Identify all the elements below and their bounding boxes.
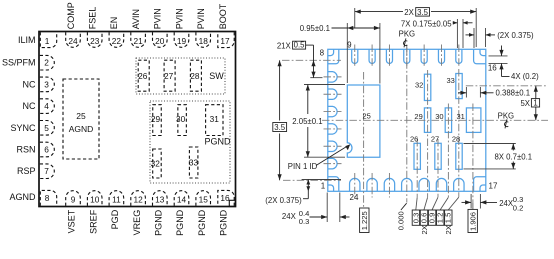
pin 1 corner pad (bottom-left L) [328,177,339,192]
centerline top slot [406,45,408,68]
pad 32 [424,74,430,100]
pin 5 SYNC (left) [40,121,55,136]
svg-text:ILIM: ILIM [18,35,36,45]
pin 10 pad (top slot) [369,49,375,63]
pad 26 SW [138,60,149,91]
svg-text:33: 33 [189,158,199,168]
basic dimension box 1.225 (pad 25 column) [360,208,369,233]
dimension 5X 1 (row offset) [535,86,537,121]
dimension 24X 0.3/0.2 (bottom-right) [470,194,472,209]
centerline corner pad 1 row [283,179,341,181]
pin 11 pad (top slot) [386,49,392,63]
svg-text:(2X 0.375): (2X 0.375) [265,196,302,205]
svg-text:2X: 2X [404,8,414,17]
svg-text:31: 31 [210,114,220,124]
pin 20 pad (bottom arch) [419,178,429,191]
svg-text:8: 8 [320,49,325,58]
pin 14 PGND (bottom) [174,191,189,206]
pin 13 pad (top slot) [421,49,427,63]
svg-text:5: 5 [44,123,49,133]
svg-text:1.906: 1.906 [469,212,478,231]
pad 33 PGND [189,147,198,178]
dimension 24X 0.4/0.3 (corner pad width) [326,193,328,223]
centerline PKG column (0.000) [406,48,408,203]
svg-text:PVIN: PVIN [174,8,184,29]
centerline bottom arch [388,173,390,198]
svg-text:28: 28 [452,134,460,143]
basic dimension box 0.6 column [424,197,428,210]
centerline left D pad [324,93,342,95]
svg-text:PKG: PKG [399,30,415,39]
svg-text:PVIN: PVIN [153,8,163,29]
centerline left D pad [324,111,342,113]
pin 19 pad (bottom arch) [436,178,446,191]
svg-text:PGND: PGND [219,209,229,236]
svg-text:32: 32 [151,159,161,169]
pin 19 PVIN (top) [174,32,189,47]
svg-text:25: 25 [363,111,371,120]
svg-text:0.000: 0.000 [397,211,406,230]
pin 4 NC (left) [40,99,55,114]
PGND region box [150,101,230,183]
pin 16 corner pad (top-right L) [474,49,486,64]
pad 31 PGND [206,105,223,136]
pin 1 index corner marker [229,200,235,206]
centerline bottom arch [371,173,373,198]
svg-text:SYNC: SYNC [10,123,36,133]
centerline top slot [423,45,425,68]
pin 6 pad (left D) [328,89,337,99]
dimension 2X 3.5 (left vertical) [279,60,281,120]
pad 31 [466,108,481,132]
svg-text:24X: 24X [282,212,297,221]
pin 4 pad (left D) [328,124,337,134]
pin 1 ILIM (corner) [40,32,56,47]
pin 9 pad (top slot) [352,49,358,63]
svg-text:RSP: RSP [17,166,36,176]
svg-text:2.05±0.1: 2.05±0.1 [292,117,322,126]
svg-text:(2X 0.375): (2X 0.375) [497,31,534,40]
pad 32 PGND [153,149,162,178]
pin 24 COMP (top) [66,32,81,47]
centerline left D pad [324,163,342,165]
pin 18 pad (bottom arch) [454,178,464,191]
pin 11 PGD (bottom) [109,191,124,206]
svg-text:24: 24 [68,36,78,46]
pin 23 FSEL (top) [87,32,102,47]
svg-text:4X (0.2): 4X (0.2) [511,72,539,81]
svg-text:1: 1 [45,36,50,46]
centerline 1.5 column [458,69,460,197]
svg-text:SS/PFM: SS/PFM [2,58,36,68]
svg-text:7X 0.175±0.05: 7X 0.175±0.05 [401,19,452,28]
svg-text:31: 31 [456,112,464,121]
pin 17 BOOT (corner) [218,32,234,47]
centerline 0.3 column [416,139,418,197]
pin 15 PGND (bottom) [196,191,211,206]
basic dimension box 1.5 column [448,197,459,210]
svg-text:0.3: 0.3 [299,217,310,226]
svg-text:NC: NC [23,101,36,111]
svg-text:RSN: RSN [16,145,35,155]
pad 30 PGND [178,105,187,136]
pad 33 [456,74,462,99]
svg-text:PGND: PGND [204,137,231,147]
svg-text:3.5: 3.5 [417,8,429,17]
pin 10 SREF (bottom) [87,191,102,206]
svg-text:14: 14 [177,194,187,204]
pin 16 PGND (corner) [218,190,234,205]
centerline top slot [354,45,356,68]
svg-text:20: 20 [155,36,165,46]
svg-text:8: 8 [45,193,50,203]
svg-text:SW: SW [209,71,224,81]
pin 2 SS/PFM (left) [40,55,54,70]
centerline bottom arch [354,173,356,198]
pin 17 corner pad (bottom-right L) [474,177,486,192]
svg-text:3: 3 [44,79,49,89]
pin 20 PVIN (top) [153,32,168,47]
svg-text:26: 26 [410,134,418,143]
svg-text:26: 26 [138,71,148,81]
svg-text:30: 30 [435,112,443,121]
pin 18 PVIN (top) [196,32,211,47]
svg-text:BOOT: BOOT [218,3,228,29]
centerline top slot [388,45,390,68]
basic dimension box 0.3 column [416,197,417,210]
svg-text:23: 23 [90,36,100,46]
dimension 0.388±0.1 (pad 31 width) [465,87,467,98]
svg-text:12: 12 [133,194,143,204]
package outline (top view) [39,32,236,207]
centerline 1.2 column [447,104,449,198]
pad 26 [414,143,420,169]
svg-text:19: 19 [177,36,187,46]
pin 22 pad (bottom arch) [384,178,394,191]
svg-text:32: 32 [415,80,423,89]
pad 28 SW [190,60,201,91]
pad 27 [435,143,441,169]
basic dimension box 1.906 (pad 31 column) [472,203,474,209]
svg-text:17: 17 [489,182,498,191]
svg-text:FSEL: FSEL [88,7,98,30]
package body outline (land pattern) [328,49,486,191]
pin 24 pad (bottom arch) [350,178,360,191]
svg-text:1: 1 [533,99,537,108]
svg-text:5X: 5X [520,99,530,108]
svg-text:0.2: 0.2 [513,203,524,212]
centerline corner pad 8 row [282,59,341,61]
svg-text:15: 15 [199,194,209,204]
svg-text:AGND: AGND [69,124,94,134]
centerline left D pad [324,128,342,130]
svg-text:NC: NC [23,79,36,89]
pin 14 pad (top slot) [438,49,444,63]
pad 28 [456,143,462,169]
svg-text:AGND: AGND [9,192,36,202]
svg-text:1.5: 1.5 [444,213,453,224]
basic dimension box 1.2 column [440,197,448,210]
dimension 2.05±0.1 (pad 25 height) [304,84,345,86]
SW region box [136,58,225,94]
pin 3 NC (left) [40,77,55,92]
svg-text:VSET: VSET [67,209,77,233]
pin 8 AGND (corner) [40,190,56,205]
centerline top slot [371,45,373,68]
svg-text:3.5: 3.5 [274,123,286,132]
centerline pads 32/33 row [466,85,546,87]
svg-text:PGND: PGND [175,209,185,236]
svg-text:6: 6 [44,145,49,155]
svg-text:PGND: PGND [197,209,207,236]
svg-text:EN: EN [109,17,119,30]
pin 15 pad (top slot) [456,49,462,63]
pin 22 EN (top) [109,32,124,47]
pin 5 pad (left D) [328,106,337,116]
dimension 2X 3.5 (top) [354,8,356,28]
svg-text:SREF: SREF [88,209,98,234]
svg-text:7: 7 [44,166,49,176]
pin 6 RSN (left) [40,142,55,157]
svg-text:2: 2 [44,58,49,68]
svg-text:21: 21 [133,36,143,46]
svg-text:0.388±0.1: 0.388±0.1 [496,89,531,98]
centerline left D pad [324,145,342,147]
pin 7 pad (left D) [328,72,337,82]
pin 12 VREG (bottom) [131,191,146,206]
dimension 8X 0.7±0.1 (inner pad height) [464,143,516,145]
pad 25 AGND (thermal pad) [63,79,99,159]
svg-text:17: 17 [220,36,230,46]
pad 30 [445,108,451,132]
centerline 1.906 column [472,104,474,204]
dimension 4X (0.2) corner pad leg [489,55,508,57]
svg-text:PGND: PGND [154,209,164,236]
dimension (2X 0.375) bottom-left corner pad [302,179,341,181]
svg-text:10: 10 [90,194,100,204]
svg-text:18: 18 [199,36,209,46]
pad 29 [424,108,430,132]
pad 29 PGND [153,105,162,136]
centerline PKG row [322,119,548,121]
svg-text:27: 27 [431,134,439,143]
extension tick at first left pad row [310,77,322,79]
svg-text:PVIN: PVIN [196,8,206,29]
svg-text:30: 30 [176,114,186,124]
svg-text:27: 27 [164,71,174,81]
svg-text:0.95±0.1: 0.95±0.1 [300,24,330,33]
svg-text:29: 29 [414,112,422,121]
centerline 0.6 column [427,70,429,197]
dimension 0.95±0.1 (pad 25 width) [346,23,348,83]
svg-text:16: 16 [220,193,230,203]
svg-text:1.225: 1.225 [360,211,369,230]
svg-text:29: 29 [151,114,161,124]
svg-text:VREG: VREG [132,210,142,236]
centerline top slot [441,45,443,68]
centerline 0.9 column [437,139,439,197]
pin 13 PGND (bottom) [153,191,168,206]
svg-text:PIN 1 ID: PIN 1 ID [288,162,318,171]
pin 9 VSET (bottom) [66,191,81,206]
centerline top slot [458,45,460,68]
pin 21 pad (bottom arch) [402,178,412,191]
svg-text:PGD: PGD [110,209,120,229]
svg-text:24X: 24X [499,199,514,208]
svg-text:COMP: COMP [66,2,76,29]
pin 21 AVIN (top) [131,32,146,47]
dimension 7X 0.175±0.05 (top slot width) [456,19,458,48]
pad 25 AGND with pin-1 index notch [347,85,380,157]
svg-text:11: 11 [112,194,121,204]
datum 0.000 (PKG column) [401,203,407,210]
dimension (2X 0.375) top-right corner pad [473,28,475,48]
svg-text:25: 25 [76,111,86,121]
pin 23 pad (bottom arch) [367,178,377,191]
pin 8 corner pad (top-left L) [328,49,339,64]
svg-text:4: 4 [44,101,49,111]
svg-text:16: 16 [488,64,497,73]
svg-text:0.5: 0.5 [294,40,306,49]
pin 3 pad (left D) [328,141,337,151]
pad 27 SW [164,60,175,91]
pin 7 RSP (left) [40,164,55,179]
centerline left D pad [324,76,342,78]
basic dimension box 0.9 column [432,197,438,210]
svg-text:2X: 2X [420,225,429,234]
svg-text:2X: 2X [444,225,453,234]
svg-text:24: 24 [350,193,359,202]
svg-text:28: 28 [190,71,200,81]
svg-text:AVIN: AVIN [131,9,141,29]
svg-text:PKG: PKG [498,111,514,120]
svg-text:22: 22 [112,36,122,46]
svg-text:1: 1 [321,182,326,191]
svg-text:9: 9 [347,41,352,50]
pin 12 pad (top slot) [404,49,410,63]
svg-text:21X: 21X [277,41,292,50]
svg-text:8X 0.7±0.1: 8X 0.7±0.1 [494,152,532,161]
centerline pad25 column (1.225) [363,72,365,208]
pin 2 pad (left D) [328,158,337,168]
svg-text:9: 9 [71,194,76,204]
svg-text:33: 33 [447,76,455,85]
svg-text:13: 13 [155,194,165,204]
